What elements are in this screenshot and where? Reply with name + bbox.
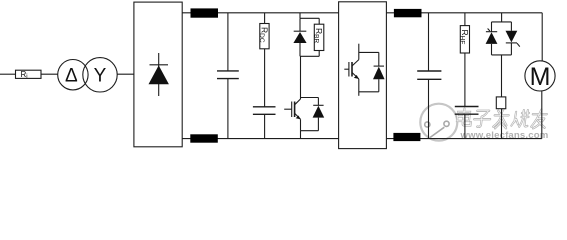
inverter bottom connect — [359, 91, 379, 93]
brake bottom join — [301, 130, 319, 132]
choke L3 top right — [394, 9, 422, 17]
resistor RBR — [314, 24, 324, 50]
watermark logo circle — [420, 104, 457, 141]
inverter block U2 — [339, 2, 387, 149]
diode D5 rectifier symbol — [149, 53, 169, 96]
diode D1 brake — [299, 18, 301, 31]
small box fuse — [496, 97, 506, 109]
wire to motor top — [541, 13, 543, 61]
svg-text:www.elecfans.com: www.elecfans.com — [460, 130, 549, 141]
wire motor bottom — [541, 91, 543, 139]
capacitor C1 branch — [227, 13, 229, 71]
capacitor C4 — [455, 106, 479, 108]
svg-text:Δ: Δ — [65, 65, 78, 86]
wire transformer to rectifier — [117, 73, 134, 75]
thyristor bottom join — [492, 54, 512, 56]
transformer secondary circle — [83, 58, 117, 92]
diode D3 inverter — [378, 52, 380, 66]
resistor Ri — [16, 70, 42, 78]
top rail right — [386, 12, 542, 14]
resistor RDC — [260, 24, 269, 49]
watermark logo hands — [425, 121, 449, 137]
inverter top connect — [359, 51, 379, 53]
thyristor T2 down — [510, 22, 512, 31]
bottom rail right — [386, 138, 541, 140]
svg-text:Y: Y — [94, 66, 107, 87]
resistor RBR wire — [318, 18, 320, 24]
watermark text 电子发烧友 — [456, 109, 547, 129]
rectifier block U1 — [134, 2, 182, 147]
capacitor C2 — [253, 106, 276, 108]
transistor Q2 inverter IGBT — [352, 60, 359, 66]
transformer primary circle — [58, 59, 88, 89]
brake branch drop wire — [299, 13, 301, 18]
tee to RBR — [300, 17, 319, 19]
bottom rail left DC — [182, 138, 338, 140]
resistor RHF wire — [464, 13, 466, 26]
resistor RHF — [460, 26, 469, 53]
thyristor branch drop — [501, 13, 503, 22]
inverter IGBT collector stub — [358, 44, 360, 60]
brake top connect to D2 — [301, 97, 319, 99]
capacitor C3 branch — [428, 13, 430, 71]
svg-text:M: M — [530, 63, 551, 91]
motor M circle — [525, 61, 555, 91]
join brake parallel — [300, 55, 319, 57]
top rail left DC — [182, 12, 338, 14]
wire to brake IGBT collector — [300, 56, 302, 99]
wire Ri to transformer — [41, 73, 58, 75]
choke L1 top left — [191, 8, 219, 17]
wire input left — [0, 73, 16, 75]
choke L4 bottom right — [393, 133, 420, 141]
diode D2 freewheel — [317, 98, 319, 106]
resistor RDC branch wire — [264, 13, 266, 24]
wire RDC to C2 — [264, 49, 266, 107]
thyristor T1 up — [491, 22, 493, 32]
choke L2 bottom left — [190, 134, 218, 142]
transistor Q1 brake IGBT — [295, 99, 301, 105]
